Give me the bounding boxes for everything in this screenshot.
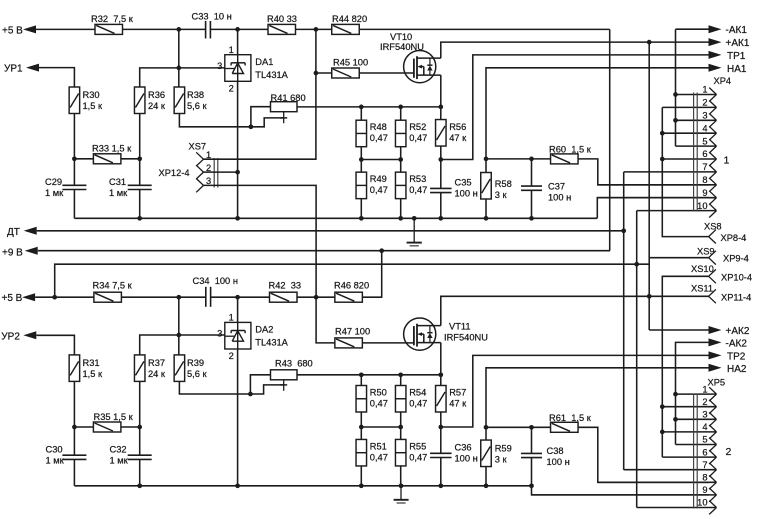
capacitor C33 10n [192,12,232,39]
wire ground rail top section [74,217,597,219]
connector XP4 pin 1 [676,85,717,102]
node B3 junction [314,295,319,300]
svg-text:XP5: XP5 [708,378,726,388]
wire R40 to node A3 [296,28,332,30]
resistor R33 1.5k [92,144,132,164]
svg-text:XS7: XS7 [189,142,207,152]
resistor R57 47k [436,386,468,413]
node VT10 source R56 top [438,105,443,110]
svg-text:R38: R38 [187,90,204,100]
connector XP5 pin 8 [598,473,717,490]
wire C36 to lower rail [440,458,442,486]
svg-text:XP12-4: XP12-4 [159,168,190,178]
node ground tap [412,216,417,221]
svg-text:R36: R36 [148,90,165,100]
svg-text:1 мк: 1 мк [45,188,64,198]
wire R43 right to lower bank rail [297,374,441,376]
svg-text:VT11: VT11 [449,321,471,331]
connector XP4 pin 2 [662,98,716,115]
output HA1 [709,64,747,75]
node XP5 pin1 junction [673,392,678,397]
connector XS7 pin 2 [196,163,211,179]
transistor VT11 IRF540NU [404,318,488,350]
connector XP5 pin 2 [662,397,716,414]
svg-text:100 н: 100 н [548,193,571,203]
svg-text:3: 3 [206,176,211,186]
svg-text:R30: R30 [83,90,100,100]
svg-text:НА1: НА1 [727,64,747,75]
connector XS10 XP10-4 [691,264,752,283]
wire XS11 feed [649,295,709,297]
resistor R50 0.47 [356,386,388,413]
svg-text:C29: C29 [45,177,62,187]
output -AK1 [709,25,748,36]
wire TP2 sense [441,355,709,427]
wire R41 left terminal [251,107,271,127]
svg-text:+АК2: +АК2 [726,326,750,337]
svg-text:XP10-4: XP10-4 [721,272,752,282]
svg-text:3 к: 3 к [495,455,508,465]
group label 1 [724,155,730,167]
svg-text:8: 8 [702,175,707,185]
node R57 bottom [438,425,443,430]
resistor R35 1.5k [93,412,133,432]
svg-text:R31: R31 [83,358,100,368]
signal label DT [7,227,37,238]
node R55 ground tap [399,483,404,488]
capacitor C34 100n [193,276,238,307]
node R48 top [359,105,364,110]
wire R37 R39 top row to DA2 pin 3 [140,297,225,355]
svg-text:R42 33: R42 33 [269,281,302,291]
wire R33 row right [121,158,140,160]
wire R59 to R61 [486,426,551,428]
connector XP5 pin 9 [532,485,717,502]
svg-text:3: 3 [702,111,707,121]
wire HA2 line [486,368,709,428]
node DA1 ground [235,216,240,221]
svg-text:5: 5 [702,435,707,445]
wire DA2 pin 2 down to lower ground rail [237,349,239,486]
node C32 lower rail [137,483,142,488]
svg-text:R45 100: R45 100 [333,58,368,68]
node R49 ground [359,216,364,221]
wire B3 to R47 [316,297,335,343]
wire lower ground rail [74,485,531,487]
svg-text:1,5 к: 1,5 к [83,369,104,379]
wire R35 row right [121,426,140,428]
svg-text:TL431A: TL431A [255,338,288,348]
resistor R39 5.6k [174,355,207,382]
svg-text:9: 9 [702,485,707,495]
node C37 ground [529,216,534,221]
wire C34 to node B2 [211,296,270,298]
resistor R40 33 [267,14,297,34]
wire R46 to +9V riser [362,251,382,298]
svg-text:C37: C37 [548,182,565,192]
svg-text:6: 6 [702,149,707,159]
signal label UR2 [1,331,36,342]
connector XP5 pin 3 [676,410,717,427]
connector XP4 label [714,76,732,86]
output +AK1 [709,38,750,49]
svg-text:R44 820: R44 820 [332,14,367,24]
connector XP4 pin 7 [624,162,717,179]
svg-text:1 мк: 1 мк [46,456,65,466]
transistor VT10 IRF540NU [380,32,441,83]
wire R41 right to shunt bank rail [297,106,441,108]
wire DA2 pin 1 [237,297,239,322]
node VT11 drain junction [647,294,652,299]
connector XP4 pin 4 [662,123,716,140]
wire R39 bottom to R43 node [179,381,250,394]
capacitor C38 100n [521,446,570,467]
wire XS9 to +AK1 chain [649,257,709,259]
svg-text:100 н: 100 н [455,454,478,464]
svg-text:R34 7,5 к: R34 7,5 к [93,281,133,291]
wire +5V lower rail to R34 [35,296,94,298]
connector XS11 XP11-4 [691,284,751,304]
wire R47 to VT11 gate [362,342,414,344]
node XP4 pin1 junction [673,92,678,97]
svg-text:4: 4 [702,422,707,432]
node C38 lower rail [529,483,534,488]
node R37 C32 junction [137,425,142,430]
resistor R44 820 [332,14,367,34]
group label 2 [726,446,732,458]
svg-text:+5 В: +5 В [2,293,23,304]
node XP5 pin3 junction [673,417,678,422]
svg-text:24 к: 24 к [148,369,166,379]
svg-text:R58: R58 [495,179,512,189]
wire pins10 vertical [636,211,638,508]
svg-text:24 к: 24 к [148,101,166,111]
resistor R51 0.47 [356,439,388,466]
svg-text:R40 33: R40 33 [267,14,297,24]
svg-text:1: 1 [229,313,234,323]
resistor R52 0.47 [395,120,427,147]
wire DA1 pin 2 down to ground rail [237,81,239,218]
svg-text:5,6 к: 5,6 к [187,101,208,111]
wire R43 wiper link [250,385,283,394]
node C38 top [529,425,534,430]
pin 3 label DA1 [217,61,222,71]
svg-text:XP11-4: XP11-4 [721,292,751,302]
node bypass takeoff [52,295,57,300]
svg-text:DA2: DA2 [255,325,273,335]
svg-text:ДТ: ДТ [7,227,20,238]
wire R45 to VT10 gate [359,72,414,74]
svg-text:3 к: 3 к [495,190,508,200]
svg-text:1 мк: 1 мк [109,188,128,198]
wire -AK1 arrow feed [676,28,709,30]
wire -AK1 vertical to +9V line [609,29,611,250]
connector XP4 pin 6 [662,149,716,166]
svg-text:C35: C35 [455,178,472,188]
wire R50 column [360,375,362,486]
node XP4 pin6 junction [660,157,665,162]
wire shunt mid bridge [359,157,403,162]
output TP1 [709,51,746,62]
resistor R43 680 trimmer [271,358,313,380]
power label +5 V (top) [2,25,36,36]
svg-text:-АК1: -АК1 [726,25,748,36]
svg-text:XS10: XS10 [691,264,714,274]
node R30 C29 junction [72,156,77,161]
output HA2 [709,364,747,375]
wire XS7 pin2 to DA1 ref [204,171,238,173]
svg-text:7: 7 [702,460,707,470]
wire C33 to node A2 [210,28,268,30]
svg-text:C32: C32 [110,445,127,455]
capacitor C30 1u [46,445,87,466]
power label +9 V [2,247,38,259]
svg-text:R43 680: R43 680 [275,358,313,368]
resistor R56 47k [436,120,468,147]
node R56 bottom [438,157,443,162]
wire VT11 drain to XS11 node [441,296,649,325]
svg-text:0,47: 0,47 [370,133,388,143]
node C31 ground [137,216,142,221]
node R39 top junction [176,333,181,338]
node R58 ground [484,216,489,221]
wire TP1 sense [441,55,709,160]
node R31 C30 junction [72,425,77,430]
wire ground rail to XP4 pin 9 [597,198,709,219]
node R59 top [484,425,489,430]
svg-text:R49: R49 [370,174,387,184]
wire R31 bottom to C30 [73,381,75,455]
svg-text:1: 1 [702,85,707,95]
svg-text:6: 6 [702,447,707,457]
connector XP5 mate bars [694,394,698,509]
svg-text:C30: C30 [46,445,63,455]
node A3 junction [314,27,319,32]
wire VT10 source to bank rail [440,75,442,107]
wire C38 column [531,427,533,486]
connector XS7 XP12-4 labels [159,142,207,179]
node C37 top [529,157,534,162]
svg-text:-АК2: -АК2 [726,339,748,350]
connector XS8 XP8-4 [704,221,746,243]
node +AK1 branch [647,40,652,45]
connector XP4 pin 5 [676,136,717,153]
svg-text:1,5 к: 1,5 к [83,101,104,111]
wire +AK2 line [649,329,709,331]
resistor R31 1.5k [69,355,103,382]
connector XP5 label [708,378,726,388]
node R59 lower rail [484,483,489,488]
connector XS9 XP9-4 [697,247,749,265]
wire C37 column [531,159,533,218]
svg-text:R55: R55 [409,442,426,452]
svg-text:+5 В: +5 В [2,26,23,37]
svg-text:0,47: 0,47 [409,185,427,195]
resistor R59 3k [481,440,512,467]
resistor R32 7.5k [91,14,134,34]
svg-text:8: 8 [702,473,707,483]
wire R60 to XP4 pin 8 [578,159,709,185]
connector XP4 pin 3 [676,111,717,128]
connector XP4 pin 8 [598,175,717,192]
svg-text:R47 100: R47 100 [335,327,370,337]
ground symbol lower [394,486,409,503]
svg-text:3: 3 [702,410,707,420]
resistor R54 0.47 [395,386,427,413]
connector XS7 pin 3 [196,176,211,192]
resistor R41 680 trimmer [271,93,306,112]
connector XP4 pin 9 [597,188,716,205]
svg-text:5: 5 [702,136,707,146]
svg-text:1: 1 [702,384,707,394]
wire lower rail to XP5 pin 9 [532,486,710,495]
wire R57 column to C36 [440,375,442,454]
resistor R60 1.5k [549,145,592,164]
connector XP4 mate bars [694,93,698,212]
wire +5V lower bypass [55,264,649,297]
node B1 junction [176,295,181,300]
wire R58 to R60 [486,158,551,160]
connector XP5 pin 6 [662,447,716,464]
op-amp DA2 TL431A [225,322,289,349]
wire R52 column [400,107,402,218]
wire R38 bottom to R41 node [179,114,251,127]
resistor R30 1.5k [69,87,103,114]
signal label UR1 [4,64,39,75]
node C35 ground [438,216,443,221]
connector XP4 pin 10 [637,201,717,218]
wire XP4 pins 1-3-5 chain -AK1 [675,29,677,146]
svg-text:0,47: 0,47 [409,133,427,143]
wire R36 R38 top row to DA1 pin 3 [140,29,225,87]
svg-text:XP9-4: XP9-4 [723,254,749,264]
wire DT vertical pins 7 [623,172,625,470]
svg-text:10: 10 [697,498,707,508]
svg-text:IRF540NU: IRF540NU [380,42,424,52]
svg-text:1: 1 [724,155,730,167]
resistor R37 24k [134,355,165,382]
svg-text:+9 В: +9 В [2,248,23,259]
wire R45 left [316,72,332,74]
connector XP5 pin 4 [662,422,716,439]
svg-text:R41 680: R41 680 [271,93,306,103]
pin 2 label DA2 [229,351,234,361]
svg-text:2: 2 [229,351,234,361]
svg-text:R59: R59 [495,444,512,454]
pin 2 label DA1 [229,84,234,94]
wire R32 to node A1 [123,28,206,30]
wire VT11 source to lower bank rail [440,343,442,375]
svg-text:R60 1,5 к: R60 1,5 к [549,145,592,155]
svg-text:1: 1 [229,45,234,55]
capacitor C29 1u [45,177,86,198]
resistor R36 24k [134,87,165,114]
resistor R48 0.47 [356,120,388,147]
wire R44 to -AK1 drop [359,28,609,30]
svg-text:0,47: 0,47 [409,399,427,409]
wire R48 column [360,107,362,218]
connector XP5 pin 10 [637,498,717,515]
node R36 C31 junction [137,156,142,161]
svg-text:R51: R51 [370,442,387,452]
node A1 junction [176,27,181,32]
wire R41 wiper link [250,118,283,127]
resistor R61 1.5k [549,413,592,432]
wire R43 left terminal [250,375,270,394]
svg-text:R50: R50 [370,388,387,398]
node XP5 pin4 junction [660,430,665,435]
svg-text:47 к: 47 к [449,399,467,409]
svg-text:10: 10 [697,201,707,211]
wire DA1 pin 1 [237,29,239,54]
node R50 top [359,372,364,377]
output TP2 [709,351,746,362]
pin 1 label DA1 [229,45,234,55]
svg-text:R52: R52 [409,122,426,132]
svg-text:100 н: 100 н [455,189,478,199]
node R54 top [398,372,403,377]
resistor R45 100 [332,58,368,79]
wire R30 bottom to C29 [73,114,75,186]
connector XP5 pin 5 [676,435,717,452]
resistor R38 5.6k [174,87,207,114]
wire R58 column [485,159,487,218]
svg-text:5,6 к: 5,6 к [187,369,208,379]
svg-text:0,47: 0,47 [370,453,388,463]
node DA1 pin2 XS7 junction [235,170,240,175]
node R46 +9V junction [379,248,384,253]
svg-text:R56: R56 [449,122,466,132]
svg-text:XS11: XS11 [691,284,713,294]
wire R56 column to C35 [440,107,442,188]
wire C29 to ground rail corner [73,190,75,219]
wire R33 row left [74,158,93,160]
svg-text:УР2: УР2 [1,331,20,342]
resistor R47 100 [335,327,370,348]
wire C30 to lower rail corner [73,459,75,485]
wire +AK1 vertical to +AK2 [648,42,650,330]
svg-text:2: 2 [702,397,707,407]
svg-text:C36: C36 [455,443,472,453]
wire C35 to ground rail [440,193,442,219]
ground symbol top [407,218,422,246]
svg-text:ТР2: ТР2 [727,352,746,363]
svg-text:2: 2 [229,84,234,94]
node R51 lower rail [359,483,364,488]
connector XS7 pin 1 [196,150,211,166]
svg-text:R46 820: R46 820 [334,281,369,291]
svg-text:C34 100 н: C34 100 н [193,276,238,286]
wire XP4 pins 2-4-6 chain to XS8 [662,107,709,236]
svg-text:1 мк: 1 мк [110,456,129,466]
resistor R58 3k [481,173,512,201]
node pins10 +5V junction [634,262,639,267]
resistor R34 7.5k [93,281,133,303]
node R45 feed junction [314,71,319,76]
svg-text:3: 3 [217,328,222,338]
node XP4 pin3 junction [673,118,678,123]
node R41 left junction [249,124,254,129]
svg-text:47 к: 47 к [449,133,467,143]
capacitor C35 100n [430,178,478,199]
wire R42 to node B3 [297,296,335,298]
trimmer R41 wiper [280,112,287,124]
svg-text:C38: C38 [547,446,564,456]
svg-text:100 н: 100 н [547,457,570,467]
connector XP5 pin 7 [624,460,717,477]
svg-text:УР1: УР1 [4,64,23,75]
wire R37 bottom to C32 [139,381,141,455]
